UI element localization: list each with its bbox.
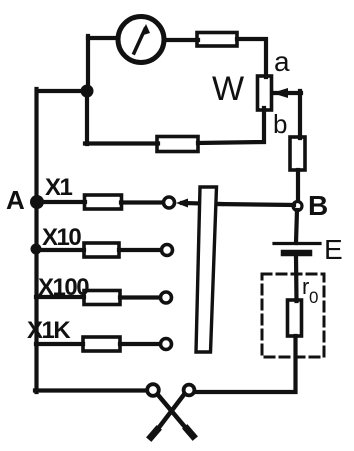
- svg-text:X10: X10: [42, 224, 81, 251]
- wire left drop from meter lead to junction: [86, 36, 90, 92]
- wire top-right corner to pot top (node a): [237, 39, 266, 77]
- svg-text:b: b: [273, 109, 287, 139]
- wire battery to r0 box: [294, 256, 299, 301]
- switch blade right (crossing): [151, 395, 184, 438]
- wire main left bus: [34, 89, 38, 392]
- wire meter to top resistor: [165, 38, 198, 42]
- wire X10 right: [119, 248, 161, 252]
- potentiometer W body: [258, 76, 272, 110]
- wire X100 left: [36, 295, 84, 299]
- battery E plates: [274, 244, 320, 254]
- resistor r0: [288, 300, 302, 336]
- resistor X1: [85, 195, 122, 209]
- selector arm stub with arrow at X1: [176, 199, 222, 208]
- resistor bottom of meter loop: [157, 137, 198, 152]
- wire junction to left bus (top): [37, 89, 88, 93]
- node B circle: [293, 202, 302, 211]
- selector bar: [196, 187, 217, 352]
- wire X1 left: [37, 200, 85, 204]
- svg-text:A: A: [6, 185, 25, 215]
- junction dot meter loop: [81, 85, 94, 98]
- wire X1 right: [121, 200, 162, 204]
- wire bottom branch right to pot bottom: [198, 108, 264, 143]
- wire resistor to node B: [296, 170, 300, 202]
- switch contact circle right: [184, 385, 195, 396]
- wire node B down to battery: [296, 210, 297, 243]
- svg-text:a: a: [274, 46, 290, 77]
- wire bottom branch left: [85, 141, 158, 145]
- contact circle X100: [161, 292, 172, 303]
- wire selector to node B: [216, 204, 294, 205]
- switch contact circle left: [147, 384, 159, 396]
- junction dot X10: [31, 244, 42, 255]
- dashed box around r0: [262, 274, 324, 357]
- svg-text:0: 0: [309, 288, 318, 307]
- wire X100 right: [120, 295, 160, 299]
- switch blade left (crossing): [159, 396, 194, 437]
- wire r0 to bottom corner: [196, 336, 296, 392]
- wire meter left lead: [88, 36, 118, 40]
- wire X1K right: [120, 342, 160, 346]
- resistor X10: [84, 243, 119, 257]
- wire junction down to bottom branch: [85, 91, 89, 144]
- svg-text:B: B: [308, 190, 328, 221]
- svg-text:X1: X1: [45, 174, 73, 201]
- junction dot A: [30, 195, 44, 209]
- wire X1K left: [36, 342, 83, 346]
- wire bottom left bus: [35, 388, 147, 392]
- resistor X100: [84, 291, 120, 305]
- resistor X1K: [83, 337, 120, 351]
- svg-text:W: W: [212, 70, 244, 108]
- wire X10 left: [36, 248, 84, 252]
- svg-text:X1K: X1K: [27, 317, 71, 344]
- contact circle X1K: [161, 339, 172, 350]
- contact circle X10: [162, 245, 173, 256]
- svg-text:E: E: [324, 234, 343, 265]
- pot wiper arrow: [272, 88, 301, 98]
- contact circle X1: [164, 197, 175, 208]
- resistor right series: [290, 137, 305, 170]
- resistor top series: [197, 33, 237, 47]
- wire wiper to right series resistor: [298, 91, 302, 138]
- label r0: [302, 274, 318, 307]
- galvanometer meter: [118, 17, 164, 63]
